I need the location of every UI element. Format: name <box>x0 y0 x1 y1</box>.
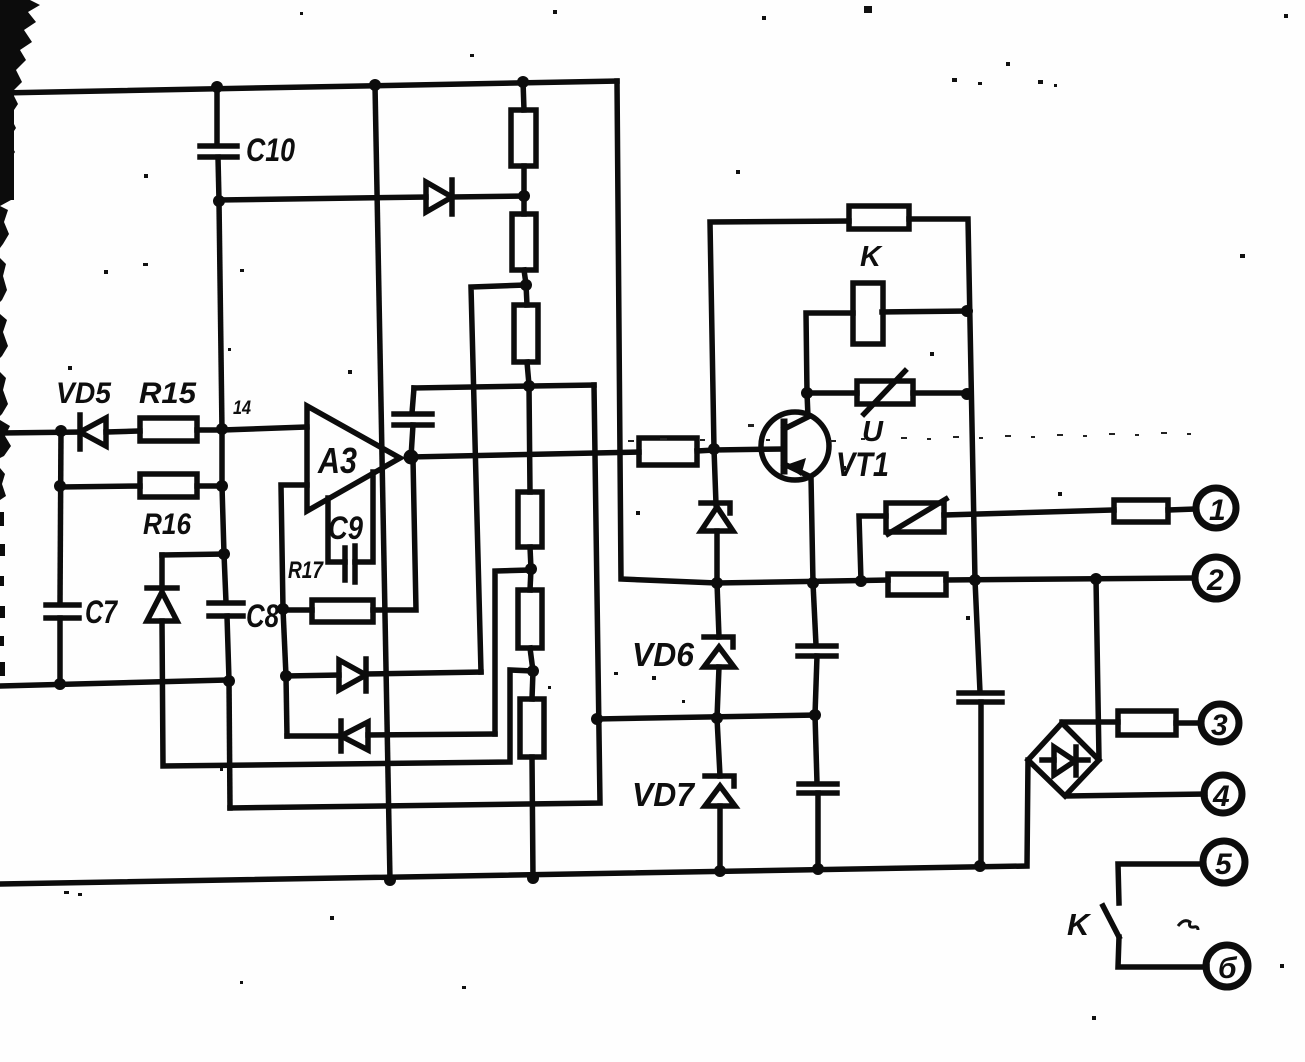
node right vertical / ground bus <box>974 860 986 872</box>
node chain / top diode <box>518 190 530 202</box>
node chain / stub bus y386 <box>523 380 535 392</box>
diode VD5 <box>77 415 83 449</box>
svg-text:VD6: VD6 <box>632 636 695 673</box>
wire T2 branch to bridge <box>1096 579 1099 759</box>
transistor VT1 <box>761 412 829 480</box>
svg-text:3: 3 <box>1211 709 1228 742</box>
svg-text:VD5: VD5 <box>56 377 112 410</box>
varistor lower <box>859 516 886 581</box>
VT1 emitter arrow <box>786 458 806 476</box>
zener VD6 <box>717 583 719 637</box>
right tall vertical with capacitor <box>975 580 980 692</box>
node VD6/VD7 <box>711 712 723 724</box>
top supply wire <box>0 81 617 93</box>
node A3 output <box>404 450 419 465</box>
svg-text:2: 2 <box>1206 564 1224 597</box>
terminal T3 <box>1201 704 1239 742</box>
node varistor1 right <box>961 388 973 400</box>
node cap column / ground bus <box>812 863 824 875</box>
svg-text:14: 14 <box>233 398 251 419</box>
wire stub left from chain <box>471 285 526 672</box>
svg-text:U: U <box>862 416 884 448</box>
svg-text:C8: C8 <box>246 598 279 634</box>
node cap column / bus y583 <box>807 577 819 589</box>
long pass vertical <box>375 85 390 880</box>
node C7 bottom / left return wire <box>54 678 66 690</box>
resistor chain R-b <box>512 214 536 270</box>
svg-text:A3: A3 <box>317 440 357 481</box>
node 14 - R15 to A3 input <box>216 423 228 435</box>
node left vertical / diode branch wire <box>218 548 230 560</box>
terminal T2 <box>1195 557 1237 599</box>
resistor chain R-d <box>529 385 530 492</box>
resistor R15 <box>140 418 197 441</box>
output capacitor above A3 <box>412 388 414 413</box>
op-amp A3 <box>307 406 400 511</box>
node cap column / VD6 bus <box>809 709 821 721</box>
svg-text:R16: R16 <box>143 508 191 541</box>
svg-text:K: K <box>860 241 883 273</box>
node top bus / divider chain <box>517 76 529 88</box>
svg-text:K: K <box>1067 907 1092 942</box>
node relay coil right <box>961 305 973 317</box>
svg-text:VT1: VT1 <box>836 446 889 484</box>
base resistor <box>639 438 697 465</box>
node R17 left / A3 inverting input <box>277 603 289 615</box>
terminal T1 <box>1196 488 1236 528</box>
relay coil K <box>806 313 853 393</box>
node C8 bottom / left return wire <box>223 675 235 687</box>
capacitor C10 <box>214 86 220 145</box>
node left vertical x220 <box>219 201 222 430</box>
bridge diamond <box>1028 723 1099 796</box>
left input wire y432 <box>0 432 80 433</box>
capacitor C9 loop <box>328 498 345 562</box>
wire R15 node to A3 input <box>222 427 307 430</box>
wire stub left to mid loop <box>162 621 533 766</box>
resistor to T1 <box>1114 500 1168 522</box>
node mid vertical / VD6 bus <box>591 713 603 725</box>
svg-text:C10: C10 <box>246 132 295 168</box>
relay K resistor top <box>710 221 849 449</box>
terminal T6 <box>1206 945 1248 987</box>
wire right vertical from top to lower bus <box>617 81 717 583</box>
wire bus to T2 <box>946 578 1193 580</box>
wire y684 <box>0 680 229 686</box>
diode near C7 (up) <box>147 592 177 621</box>
node chain R-d/R-e <box>525 563 537 575</box>
node long vertical / ground bus <box>384 874 396 886</box>
resistor chain R-a <box>523 81 524 110</box>
node R16 right <box>216 480 228 492</box>
wire y555 <box>162 554 224 555</box>
zener VD near VT1 <box>714 449 716 504</box>
resistor chain R-c <box>514 305 538 362</box>
node VD5 anode / C7 branch <box>55 425 67 437</box>
bottom long wire <box>0 760 1028 884</box>
svg-text:5: 5 <box>1215 848 1233 881</box>
varistor U <box>807 390 857 396</box>
diode mid right-pointing <box>286 675 339 676</box>
resistor R17 <box>283 607 312 613</box>
svg-text:4: 4 <box>1212 780 1230 813</box>
node right vertical / terminal 2 wire <box>969 574 981 586</box>
node VT1 base <box>708 443 720 455</box>
wire C10 to diode VD <box>219 197 426 200</box>
svg-text:б: б <box>1218 952 1238 985</box>
svg-text:VD7: VD7 <box>632 776 696 813</box>
capacitor C8 <box>209 600 243 606</box>
wire mid chain stub y386 <box>414 385 594 388</box>
node zener column / bus y583 <box>711 577 723 589</box>
node C10 bottom / diode wire <box>213 195 225 207</box>
switch K wires <box>1118 864 1203 903</box>
diode D-top <box>426 182 452 212</box>
svg-text:C9: C9 <box>328 510 363 546</box>
node varistor2 left / bus y583 <box>855 575 867 587</box>
A3 lower input stub <box>281 485 307 609</box>
node top bus / long vertical <box>369 79 381 91</box>
A3 output wire <box>411 452 639 457</box>
wire VD6 bus y717 <box>597 715 815 719</box>
capacitor mid-2 <box>815 715 817 783</box>
svg-text:R15: R15 <box>139 377 197 410</box>
left vertical x60 + capacitor C7 <box>60 430 61 604</box>
bus resistor y583 <box>888 574 946 595</box>
terminal T5 <box>1203 841 1245 883</box>
wire stub left to lower diode <box>495 570 531 734</box>
svg-text:1: 1 <box>1209 494 1226 527</box>
node chain bottom / ground bus <box>527 872 539 884</box>
wire lower-left L to mid vertical <box>230 385 600 808</box>
resistor chain R-f <box>520 699 544 757</box>
wire bridge to R T3 <box>1062 719 1118 725</box>
wire bridge to T4 <box>1067 794 1205 796</box>
node terminal2 wire / bridge branch <box>1090 573 1102 585</box>
node top bus / C10 <box>211 81 223 93</box>
resistor R16 <box>61 486 140 487</box>
node C7 branch / R16 left <box>54 480 66 492</box>
svg-text:R17: R17 <box>288 557 324 584</box>
zener VD7 <box>717 718 720 776</box>
node chain / stub to mid diode <box>520 279 532 291</box>
node feedback vertical / mid diodes <box>280 670 292 682</box>
svg-text:C7: C7 <box>85 594 119 630</box>
node chain R-e/R-f <box>527 665 539 677</box>
wire lower bus y583 <box>717 580 888 583</box>
capacitor mid-1 <box>813 583 816 645</box>
terminal T4 <box>1204 775 1242 813</box>
resistor chain R-e <box>518 590 542 648</box>
node VD7 / ground bus <box>714 865 726 877</box>
diode mid left-pointing <box>338 721 344 751</box>
bridge diode <box>1042 757 1054 763</box>
node VT1 collector <box>801 387 813 399</box>
